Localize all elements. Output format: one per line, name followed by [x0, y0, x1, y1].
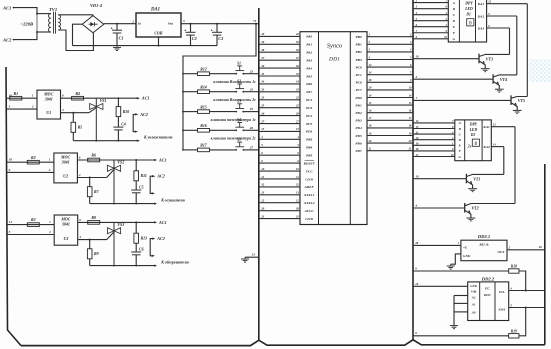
- pin VCC left wire: [259, 167, 314, 174]
- svg-text:PC0: PC0: [355, 65, 361, 69]
- pin PB3 left wire: [259, 135, 313, 142]
- resistor R5: [71, 113, 82, 141]
- svg-text:XTAL1: XTAL1: [303, 193, 315, 197]
- terminal AC2: [2, 38, 15, 43]
- svg-text:клавиша температура 2с: клавиша температура 2с: [211, 137, 257, 141]
- transistor VT3: [479, 54, 510, 72]
- svg-text:38: 38: [260, 48, 265, 52]
- wire KA2 to VT4: [516, 16, 518, 75]
- svg-text:PC6: PC6: [355, 81, 361, 85]
- svg-text:3: 3: [409, 41, 412, 44]
- svg-text:10: 10: [416, 174, 420, 178]
- svg-text:4: 4: [409, 49, 412, 52]
- svg-text:R8: R8: [91, 216, 96, 220]
- pushbutton S5: [210, 138, 245, 151]
- diode bridge VD1-4: [82, 3, 104, 33]
- svg-text:1: 1: [49, 158, 51, 162]
- svg-text:PB3: PB3: [306, 138, 312, 142]
- svg-text:DDC: DDC: [483, 293, 492, 297]
- svg-text:10: 10: [409, 87, 412, 90]
- resistor R4: [72, 92, 84, 100]
- transistor VT4: [493, 74, 517, 92]
- svg-text:C: C: [459, 132, 462, 136]
- wire base VT5: [413, 96, 511, 100]
- svg-text:R19: R19: [511, 329, 517, 333]
- svg-text:D2: D2: [470, 133, 476, 137]
- svg-text:4: 4: [296, 136, 299, 139]
- wire input 1 U2: [6, 158, 54, 163]
- bus harness center: [258, 8, 260, 340]
- pin D1 segment G wire: [413, 36, 456, 41]
- label key caption 2: [213, 98, 256, 102]
- svg-text:клавиша Влажность 2с: клавиша Влажность 2с: [213, 98, 256, 102]
- pin PD2 right wire: [355, 110, 413, 116]
- svg-text:PA3: PA3: [306, 58, 312, 62]
- svg-text:3: 3: [8, 105, 11, 109]
- svg-text:PB4: PB4: [306, 146, 312, 150]
- pin PD7 right wire: [355, 148, 413, 154]
- terminal AC2 U1: [133, 112, 148, 133]
- resistor R16: [182, 124, 209, 132]
- svg-text:17: 17: [409, 117, 412, 120]
- svg-text:R17: R17: [200, 144, 208, 148]
- svg-text:15: 15: [296, 128, 299, 131]
- svg-text:AC2: AC2: [139, 112, 148, 117]
- svg-text:R9: R9: [94, 252, 99, 256]
- svg-text:9: 9: [261, 159, 263, 163]
- svg-text:21: 21: [368, 148, 372, 151]
- svg-text:F: F: [459, 149, 462, 153]
- pin PD5 right wire: [355, 132, 413, 138]
- svg-text:LED: LED: [464, 7, 473, 11]
- svg-text:6: 6: [416, 204, 418, 208]
- wire DA1 ground pin: [158, 37, 160, 47]
- svg-text:22: 22: [368, 64, 372, 67]
- svg-text:21: 21: [415, 131, 419, 134]
- chip DD2.2: [468, 276, 509, 320]
- svg-text:RESET: RESET: [304, 161, 316, 165]
- svg-text:+: +: [211, 29, 213, 33]
- svg-text:26: 26: [295, 112, 299, 115]
- svg-text:19: 19: [416, 54, 420, 58]
- wire secondary bottom to bridge: [58, 30, 93, 51]
- svg-text:C6: C6: [139, 247, 144, 251]
- svg-text:4: 4: [509, 286, 512, 290]
- pin PA5 left wire: [259, 72, 313, 79]
- svg-text:К увлажнителю: К увлажнителю: [143, 136, 173, 140]
- wire DD2.2 supply: [413, 282, 468, 287]
- svg-text:11: 11: [296, 176, 299, 179]
- svg-text:AREF: AREF: [304, 185, 315, 189]
- pin PC6 right wire: [355, 79, 413, 85]
- svg-text:S4: S4: [237, 118, 241, 122]
- svg-text:К обогревателю: К обогревателю: [160, 260, 189, 264]
- svg-text:6: 6: [410, 64, 412, 67]
- svg-text:2x: 2x: [467, 144, 472, 148]
- transistor VT2: [465, 203, 515, 221]
- bus harness mid-right: [412, 0, 414, 340]
- wire AC1 output U3: [135, 220, 166, 225]
- svg-text:23: 23: [260, 96, 265, 100]
- label key caption 3: [211, 118, 257, 122]
- resistor R7: [87, 178, 99, 204]
- svg-text:6: 6: [261, 151, 263, 155]
- wire bridge plus output: [104, 23, 136, 25]
- svg-text:16: 16: [409, 110, 412, 113]
- wire KA3 to VT3: [509, 28, 511, 54]
- svg-text:25: 25: [295, 104, 299, 107]
- pin XTAL1 left wire: [259, 191, 315, 198]
- svg-text:15: 15: [261, 127, 265, 131]
- svg-text:U3: U3: [63, 236, 68, 241]
- svg-text:U2: U2: [63, 174, 68, 179]
- resistor R1: [10, 92, 22, 100]
- svg-text:VT3: VT3: [486, 56, 493, 61]
- svg-text:KA3: KA3: [477, 26, 485, 30]
- resistor R13: [134, 222, 147, 243]
- svg-text:C1: C1: [119, 36, 124, 41]
- svg-text:3: 3: [182, 19, 185, 23]
- pin PB2 right wire: [355, 49, 413, 55]
- svg-text:К осушителю: К осушителю: [160, 198, 185, 202]
- wire DD2.1 ground: [447, 254, 461, 269]
- pin D1 segment A wire: [413, 0, 456, 5]
- svg-text:5: 5: [261, 143, 263, 147]
- svg-text:PD2: PD2: [355, 111, 362, 115]
- capacitor C4: [113, 117, 125, 141]
- pin XTAL2 left wire: [259, 199, 315, 206]
- svg-text:~220В: ~220В: [21, 21, 34, 26]
- svg-text:3041: 3041: [44, 97, 53, 102]
- capacitor C6: [131, 243, 143, 265]
- wire SCL to bus: [509, 286, 545, 290]
- wire SDA to bus: [509, 303, 545, 308]
- wire bottom rail U2: [90, 202, 158, 204]
- wire bottom rail U1: [73, 140, 140, 142]
- svg-text:13: 13: [261, 191, 265, 195]
- label key caption 4: [211, 137, 257, 141]
- pin D2 KA2 wire: [482, 143, 503, 149]
- svg-text:C3: C3: [218, 36, 224, 41]
- wire +5V feed to keypad: [183, 23, 257, 150]
- wire base VT3: [413, 54, 479, 58]
- wire 220V marker: [36, 14, 38, 32]
- svg-text:4: 4: [78, 173, 81, 177]
- pin PD3 right wire: [355, 117, 413, 123]
- wire input 2 U1: [6, 105, 37, 110]
- transistor VT5: [511, 95, 527, 113]
- pin D1 KA2 wire: [477, 13, 517, 19]
- svg-text:VT1: VT1: [473, 176, 480, 181]
- wire SCL pullup net: [413, 266, 509, 271]
- svg-text:28: 28: [414, 241, 419, 245]
- resistor R2: [27, 156, 39, 164]
- svg-text:36: 36: [295, 65, 299, 68]
- svg-text:Vdd: Vdd: [471, 290, 477, 294]
- pushbutton S4: [210, 118, 245, 131]
- svg-text:14: 14: [409, 94, 412, 97]
- svg-text:37: 37: [260, 56, 265, 60]
- svg-text:КВ2 1Ь: КВ2 1Ь: [478, 244, 488, 247]
- svg-text:33: 33: [260, 88, 265, 92]
- pin PA7 left wire: [259, 88, 313, 95]
- pin PC3 left wire: [259, 103, 313, 110]
- svg-text:2: 2: [48, 168, 51, 172]
- svg-text:19: 19: [409, 132, 412, 135]
- svg-text:29: 29: [368, 87, 372, 90]
- capacitor C5: [131, 181, 143, 204]
- optocoupler U3: [54, 215, 77, 245]
- svg-text:E: E: [452, 25, 456, 29]
- svg-text:VT5: VT5: [518, 98, 525, 103]
- optocoupler U1: [37, 90, 61, 119]
- svg-text:PD0: PD0: [355, 96, 362, 100]
- svg-text:8: 8: [475, 141, 478, 147]
- pushbutton S1: [210, 62, 245, 75]
- svg-text:8: 8: [469, 21, 472, 27]
- svg-text:18: 18: [409, 125, 412, 128]
- svg-text:R5: R5: [78, 126, 83, 130]
- label load U3: [160, 260, 189, 264]
- svg-text:D: D: [458, 138, 462, 142]
- pin PC4 left wire: [259, 111, 313, 118]
- svg-text:R14: R14: [200, 86, 207, 90]
- svg-text:+U: +U: [463, 245, 468, 249]
- svg-text:31: 31: [295, 215, 299, 218]
- svg-text:KA1: KA1: [482, 125, 490, 129]
- svg-text:4: 4: [61, 108, 64, 112]
- resistor R6: [88, 154, 100, 162]
- earth symbol at C1: [116, 46, 118, 48]
- svg-text:клавиша Влажность 1с: клавиша Влажность 1с: [213, 80, 256, 84]
- pin PA0 left wire: [259, 32, 313, 39]
- svg-text:6: 6: [79, 218, 81, 222]
- svg-text:OUT: OUT: [498, 250, 506, 254]
- svg-text:C: C: [453, 13, 456, 17]
- svg-text:G: G: [459, 155, 462, 159]
- pin D2 segment G wire: [413, 154, 462, 159]
- wire pin4 gate U3: [78, 235, 107, 241]
- svg-text:34: 34: [295, 81, 299, 84]
- svg-text:A1: A1: [471, 303, 476, 307]
- svg-text:39: 39: [295, 41, 299, 44]
- svg-text:1: 1: [369, 34, 371, 37]
- pin AREF left wire: [259, 183, 315, 190]
- svg-text:34: 34: [260, 80, 265, 84]
- svg-text:2: 2: [415, 75, 418, 79]
- svg-text:12: 12: [261, 199, 265, 203]
- svg-text:PB3: PB3: [355, 58, 361, 62]
- pin D1 KA1 wire: [477, 1, 528, 7]
- svg-text:PA4: PA4: [306, 66, 312, 70]
- wire pin6 output U2: [77, 155, 136, 160]
- svg-text:PA0: PA0: [306, 35, 312, 39]
- svg-text:B: B: [452, 7, 456, 11]
- svg-text:PA6: PA6: [306, 82, 312, 86]
- wire key row 3 to bus: [243, 107, 258, 111]
- svg-text:1: 1: [32, 94, 34, 98]
- svg-text:39: 39: [260, 40, 265, 44]
- resistor R18: [509, 265, 527, 292]
- display DPY D1: [448, 0, 486, 42]
- svg-text:32: 32: [295, 184, 299, 187]
- svg-text:PA7: PA7: [306, 90, 312, 94]
- svg-text:28: 28: [368, 79, 372, 82]
- svg-text:38: 38: [295, 49, 299, 52]
- svg-text:PB1: PB1: [355, 43, 361, 47]
- svg-text:30: 30: [295, 207, 299, 210]
- svg-text:2: 2: [409, 34, 412, 37]
- svg-text:GND: GND: [463, 254, 471, 258]
- wire AC1 output U1: [117, 96, 149, 101]
- svg-text:4: 4: [260, 135, 263, 139]
- pin D2 segment E wire: [413, 143, 462, 148]
- svg-text:1: 1: [458, 241, 460, 245]
- svg-text:PA2: PA2: [306, 51, 312, 55]
- terminal AC2 U2: [150, 174, 165, 195]
- pin PC0 right wire: [355, 64, 413, 70]
- svg-text:15: 15: [409, 102, 412, 105]
- label load U2: [160, 198, 185, 202]
- svg-text:R3: R3: [31, 218, 36, 222]
- optocoupler U2: [54, 153, 78, 183]
- svg-text:26: 26: [249, 126, 254, 130]
- svg-text:35: 35: [295, 73, 299, 76]
- svg-text:5: 5: [410, 56, 412, 59]
- svg-text:GND: GND: [305, 217, 313, 221]
- svg-text:I²C: I²C: [484, 286, 490, 290]
- svg-text:VT2: VT2: [472, 206, 479, 211]
- svg-text:AC1: AC1: [158, 157, 167, 162]
- svg-text:PC3: PC3: [306, 106, 312, 110]
- svg-text:B: B: [458, 127, 462, 131]
- pin PC7 right wire: [355, 87, 413, 93]
- svg-text:1: 1: [49, 220, 51, 224]
- pin D2 segment C wire: [413, 131, 462, 136]
- svg-text:7: 7: [416, 96, 418, 100]
- svg-text:DPY: DPY: [469, 122, 478, 126]
- wire base VT4: [413, 75, 493, 79]
- pin PC1 right wire: [355, 72, 413, 78]
- svg-text:DD2.1: DD2.1: [477, 234, 490, 239]
- svg-text:R7: R7: [94, 190, 100, 194]
- pushbutton S3: [210, 99, 245, 112]
- resistor R19: [509, 308, 526, 339]
- svg-text:VD1-4: VD1-4: [90, 3, 103, 8]
- svg-text:+: +: [184, 29, 186, 33]
- svg-text:A2: A2: [471, 296, 476, 300]
- svg-text:30: 30: [260, 206, 265, 210]
- svg-text:C5: C5: [139, 185, 144, 189]
- svg-text:+: +: [111, 26, 113, 30]
- wire input 2 U2: [6, 168, 54, 173]
- svg-text:COH: COH: [154, 31, 163, 35]
- svg-text:R2: R2: [31, 156, 36, 160]
- svg-text:VS2: VS2: [117, 160, 124, 165]
- svg-text:10: 10: [261, 167, 265, 171]
- pin PD6 right wire: [355, 140, 413, 146]
- svg-text:21: 21: [408, 148, 412, 151]
- svg-text:PD3: PD3: [355, 119, 362, 123]
- pin D1 KA3 wire: [477, 25, 510, 31]
- resistor R9: [87, 240, 98, 266]
- svg-text:KA2: KA2: [477, 14, 485, 18]
- pin D2 KA1 wire: [482, 124, 515, 130]
- svg-text:7: 7: [410, 72, 412, 75]
- svg-text:R12: R12: [200, 68, 207, 72]
- resistor R12: [182, 68, 209, 76]
- scan artifact patch: [529, 59, 551, 82]
- wire secondary top to bridge: [58, 15, 93, 16]
- svg-text:2: 2: [508, 246, 511, 250]
- triac VS1: [89, 98, 107, 141]
- svg-text:5: 5: [297, 144, 299, 147]
- svg-text:27: 27: [260, 119, 265, 123]
- wire AC1 to transformer: [14, 8, 37, 14]
- svg-text:18: 18: [9, 158, 13, 162]
- svg-text:R16: R16: [200, 124, 207, 128]
- svg-text:AC2: AC2: [156, 174, 165, 179]
- pin D1 segment D wire: [413, 18, 456, 23]
- svg-text:DA1: DA1: [150, 8, 160, 13]
- svg-text:PC7: PC7: [355, 88, 361, 92]
- wire bottom rail U3: [90, 264, 158, 266]
- svg-text:3041: 3041: [61, 222, 70, 227]
- svg-text:R18: R18: [511, 265, 517, 269]
- svg-text:8: 8: [415, 331, 417, 335]
- svg-text:15: 15: [369, 102, 372, 105]
- wire bridge minus to ground rail: [73, 24, 83, 45]
- svg-text:24: 24: [249, 87, 254, 91]
- bus harness left: [6, 67, 21, 346]
- display DPY D2: [455, 120, 492, 161]
- svg-text:A: A: [452, 1, 456, 5]
- svg-text:6: 6: [297, 152, 299, 155]
- svg-text:27: 27: [295, 120, 299, 123]
- wire SDA pullup net: [413, 331, 509, 336]
- svg-text:27: 27: [249, 146, 254, 150]
- wire DD2.2 address pins to ground: [450, 296, 468, 329]
- voltage regulator DA1: [131, 8, 185, 37]
- svg-text:U1: U1: [46, 110, 51, 115]
- svg-text:2: 2: [131, 19, 134, 23]
- pin D2 segment A wire: [413, 120, 462, 125]
- svg-text:16: 16: [415, 282, 419, 286]
- wire KA2 to VT1: [503, 147, 505, 175]
- triac VS3: [107, 222, 125, 266]
- svg-text:KA1: KA1: [477, 2, 485, 6]
- svg-text:13: 13: [252, 253, 256, 257]
- resistor R14: [182, 86, 209, 94]
- svg-text:PD4: PD4: [355, 126, 362, 130]
- transistor VT1: [466, 174, 503, 192]
- svg-text:DPY: DPY: [464, 2, 473, 6]
- pin PB0 right wire: [355, 34, 413, 40]
- svg-text:3: 3: [368, 49, 371, 52]
- pin D2 segment F wire: [413, 148, 462, 153]
- wire pin4 gate U1: [61, 108, 90, 114]
- svg-text:35: 35: [260, 72, 265, 76]
- svg-text:40: 40: [260, 32, 265, 36]
- svg-text:13: 13: [493, 124, 496, 127]
- svg-text:26: 26: [538, 245, 543, 249]
- pin PB5 left wire: [259, 151, 313, 158]
- svg-text:20: 20: [408, 140, 412, 143]
- svg-text:DD2.2: DD2.2: [481, 276, 495, 281]
- capacitor C3: [211, 23, 224, 46]
- pin PD1 left wire: [259, 127, 313, 134]
- svg-text:3041: 3041: [61, 160, 70, 165]
